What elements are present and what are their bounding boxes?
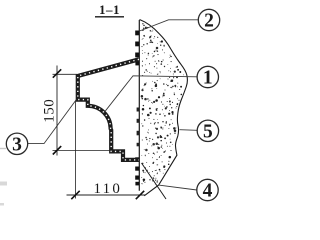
svg-text:2: 2 xyxy=(204,11,214,32)
svg-text:110: 110 xyxy=(94,181,123,197)
svg-text:3: 3 xyxy=(12,134,22,155)
svg-text:1: 1 xyxy=(203,68,213,89)
svg-text:150: 150 xyxy=(41,99,57,123)
svg-text:5: 5 xyxy=(203,121,213,142)
svg-text:4: 4 xyxy=(203,181,213,202)
svg-text:1–1: 1–1 xyxy=(99,2,120,17)
